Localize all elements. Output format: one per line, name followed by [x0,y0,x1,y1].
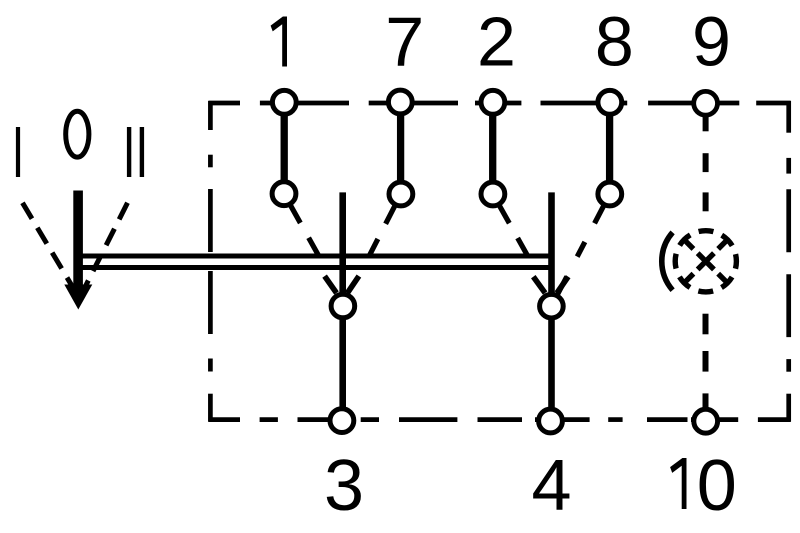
actuator arrow head [64,285,92,310]
lamp L1 left arc [662,232,673,290]
contact 7 dashed throw to bar [370,194,401,255]
dashed stroke line right (position II throw) [81,203,128,296]
terminal circle pin 7 [388,90,412,114]
moving contact circle 4 [540,294,564,318]
fixed contact circle below pin 8 [598,182,622,206]
pin 10 stub [703,393,709,421]
fixed contact circle below pin 2 [481,182,505,206]
label 0 (position 0) [66,111,89,157]
moving contact 3 left prong [325,276,337,293]
actuator bar bottom line [79,265,554,270]
pin 9 to lamp dashed wire [703,153,709,172]
pin number 1 [271,17,287,67]
enclosure border left (dash-dot) [208,101,213,422]
moving contact circle 3 [331,294,355,318]
moving contact 4 vertical [548,192,555,419]
pin number 10 [670,458,686,509]
terminal circle pin 2 [481,90,505,114]
label I (position I) [16,127,20,177]
terminal circle pin 10 [694,409,718,433]
lamp L1 dashed X arm SE [706,261,728,283]
svg-text:8: 8 [595,3,634,81]
actuator bar top line [79,254,554,259]
actuator arrow shaft [73,191,83,288]
contact 2 dashed throw to bar [493,194,527,255]
enclosure border top (dash-dot) [208,101,790,106]
terminal circle pin 8 [598,90,622,114]
lamp L1 dashed X arm NW [684,239,706,261]
moving contact 4 right prong [557,277,568,293]
wire pin7 vertical [397,104,404,192]
svg-text:9: 9 [692,3,731,81]
lamp L1 dashed X arm SW [684,261,706,283]
lamp L1 dashed ring [675,231,736,292]
wire pin8 vertical [606,104,613,192]
fixed contact circle below pin 1 [272,182,296,206]
svg-text:2: 2 [477,3,516,81]
lamp to pin 10 dashed wire [703,314,709,335]
wire pin2 vertical [489,104,496,192]
pin 9 stub [703,104,709,131]
enclosure border bottom (dash-dot) [208,417,790,422]
svg-text:0: 0 [697,446,737,526]
terminal circle pin 3 [330,409,354,433]
svg-text:7: 7 [385,3,424,81]
terminal circle pin 1 [272,90,296,114]
fixed contact circle below pin 7 [389,182,413,206]
terminal circle pin 4 [539,409,563,433]
svg-text:3: 3 [324,446,364,526]
moving contact 3 right prong [347,276,359,293]
lamp L1 dashed X arm NE [706,239,728,261]
contact 1 dashed throw to bar [284,194,318,255]
moving contact 3 vertical [339,192,346,419]
label II (position II) [127,127,131,177]
terminal circle pin 9 [694,91,718,115]
contact 8 dashed throw to moving contact [551,194,609,306]
wire pin1 vertical [281,104,288,192]
svg-text:4: 4 [531,446,571,526]
dashed stroke line left (position I throw) [23,203,77,294]
moving contact 4 left prong [533,277,545,293]
enclosure border right (dash-dot) [786,101,791,422]
